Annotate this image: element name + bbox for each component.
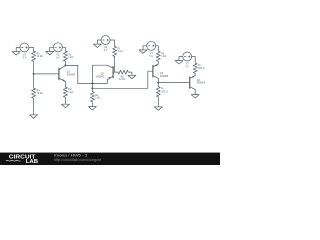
svg-text:2N3906: 2N3906	[96, 75, 105, 78]
resistor Ra	[32, 88, 36, 98]
wire Q2 base to Rg	[113, 71, 118, 73]
ground (below Q4)	[191, 95, 199, 98]
wire V7 to Rj	[192, 57, 196, 64]
voltage source V3	[16, 43, 29, 52]
svg-text:1 kΩ: 1 kΩ	[118, 50, 123, 53]
svg-text:100 Ω: 100 Ω	[161, 90, 168, 93]
wire Rb down through node	[33, 61, 35, 88]
wire vertical A	[77, 65, 79, 83]
node C1 (crossing)	[91, 82, 93, 84]
resistor Rc	[63, 51, 67, 61]
voltage source V7	[179, 52, 192, 61]
wire V3 to Rb	[29, 48, 34, 52]
ground (below Ri)	[154, 107, 162, 110]
voltage source V5	[50, 43, 63, 52]
wire Re to ground	[91, 102, 93, 107]
wire node A to Q1 base	[34, 73, 59, 75]
wire Rg to ground	[128, 72, 132, 75]
svg-text:5 V: 5 V	[149, 55, 153, 58]
resistor Rh	[156, 51, 160, 61]
resistor Rg	[118, 70, 128, 74]
transistor Q3	[153, 64, 158, 78]
voltage source V6	[97, 36, 110, 45]
footer bar	[0, 152, 220, 165]
resistor Rf	[113, 46, 117, 56]
wire Ra to ground	[33, 98, 35, 115]
wire Rc to Q1 collector node	[64, 61, 66, 65]
ground (V5)	[46, 51, 54, 54]
node C2 (bus tap)	[91, 87, 93, 89]
wire Rd to ground	[64, 97, 66, 104]
svg-text:1 kΩ: 1 kΩ	[161, 55, 166, 58]
wire Q2 collector to vertical C	[92, 65, 107, 91]
ground (Rg)	[128, 75, 136, 78]
resistor Re	[90, 92, 94, 102]
ground (V7)	[175, 61, 183, 64]
wire Rh to Q3 emitter	[157, 61, 159, 64]
svg-text:1 kΩ: 1 kΩ	[68, 91, 73, 94]
svg-text:2N3904: 2N3904	[67, 73, 76, 76]
svg-text:10 kΩ: 10 kΩ	[37, 55, 44, 58]
resistor Ri	[156, 87, 160, 97]
wire B (Q1 collector to Q2 emitter)	[78, 79, 108, 83]
svg-text:2N3906: 2N3906	[160, 75, 169, 78]
ground (V6)	[93, 44, 101, 47]
ground (V3)	[12, 52, 20, 55]
ground (below Ra)	[30, 115, 38, 118]
node D (Q3 collector)	[157, 82, 159, 84]
wire Rj to Q4 emitter	[194, 73, 196, 75]
svg-text:10 kΩ: 10 kΩ	[119, 78, 126, 81]
svg-text:2N3906: 2N3906	[197, 82, 206, 85]
transistor Q2	[107, 65, 113, 79]
voltage source V4	[143, 41, 156, 50]
svg-text:5 V: 5 V	[185, 66, 189, 69]
ground (below Rd)	[61, 104, 69, 107]
footer logo CIRCUIT LAB	[6, 155, 38, 165]
svg-text:500 Ω: 500 Ω	[198, 67, 205, 70]
node B (Q1 collector)	[64, 64, 66, 66]
wire bus (Q2 collector to Q3 base)	[92, 71, 153, 88]
wire V4 to Rh	[156, 46, 159, 51]
svg-text:1 kΩ: 1 kΩ	[68, 56, 73, 59]
transistor Q1	[59, 65, 66, 81]
resistor Rj	[193, 63, 197, 73]
ground (V4)	[139, 50, 147, 53]
transistor Q4	[190, 75, 196, 89]
svg-text:LAB: LAB	[26, 159, 38, 165]
svg-text:10 kΩ: 10 kΩ	[37, 92, 44, 95]
node A (divider tap)	[33, 73, 35, 75]
wire Q3 collector down to node	[157, 78, 159, 86]
wire V6 to Rf	[110, 40, 115, 46]
svg-text:Imona / HW5 - 1: Imona / HW5 - 1	[54, 154, 88, 158]
wire V5 to Rc	[62, 47, 65, 51]
wire Q1 collector to vertical A	[65, 64, 77, 66]
resistor Rb	[32, 51, 36, 61]
svg-text:1 kΩ: 1 kΩ	[95, 97, 100, 100]
svg-text:http://circuitlab.com/c/cegvbf: http://circuitlab.com/c/cegvbf	[54, 158, 101, 162]
svg-text:5 V: 5 V	[104, 49, 108, 52]
wire Q1 emitter to Rd	[64, 82, 66, 88]
wire Q3 collector node to Q4 base	[158, 82, 189, 84]
wire Rf to Q2 base node	[114, 57, 116, 73]
resistor Rd	[63, 87, 67, 97]
svg-text:5 V: 5 V	[56, 56, 60, 59]
ground (below Re)	[88, 107, 96, 110]
wire Ri to ground	[157, 97, 159, 107]
wire Q4 collector to ground	[194, 89, 196, 94]
svg-text:5 V: 5 V	[23, 57, 27, 60]
